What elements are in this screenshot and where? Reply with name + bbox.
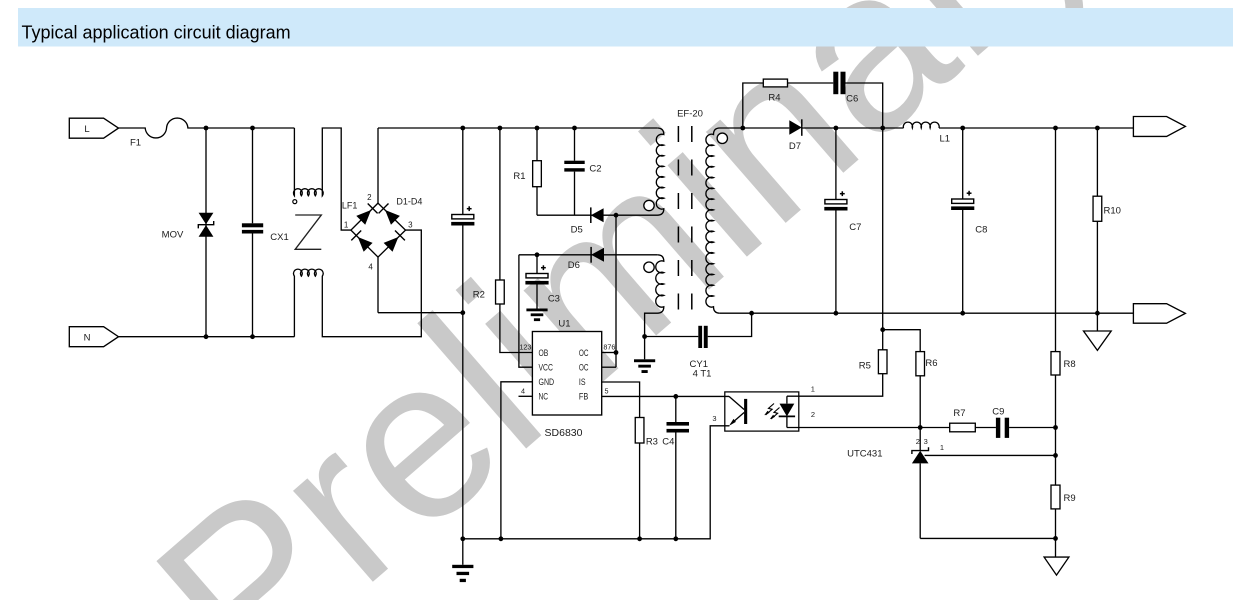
svg-text:MOV: MOV <box>162 229 184 240</box>
svg-text:D1-D4: D1-D4 <box>396 197 422 207</box>
svg-text:CX1: CX1 <box>270 232 288 243</box>
svg-text:L1: L1 <box>940 133 951 144</box>
svg-text:NC: NC <box>539 392 549 402</box>
svg-text:R6: R6 <box>925 358 937 369</box>
svg-text:2: 2 <box>916 437 920 446</box>
svg-text:4: 4 <box>368 263 373 272</box>
svg-text:C2: C2 <box>589 164 601 175</box>
svg-text:1: 1 <box>811 385 815 394</box>
svg-text:3: 3 <box>712 414 716 423</box>
svg-text:3: 3 <box>408 221 413 230</box>
svg-text:R3: R3 <box>646 436 658 447</box>
svg-text:5: 5 <box>605 386 609 395</box>
svg-text:SD6830: SD6830 <box>545 427 583 439</box>
svg-text:R9: R9 <box>1064 493 1076 504</box>
svg-text:R7: R7 <box>953 408 965 419</box>
svg-text:OB: OB <box>539 348 549 358</box>
svg-text:IS: IS <box>579 377 586 387</box>
svg-text:R4: R4 <box>768 93 780 104</box>
svg-text:OC: OC <box>579 363 589 373</box>
svg-text:1: 1 <box>940 443 944 452</box>
svg-text:C8: C8 <box>975 224 987 235</box>
svg-text:FB: FB <box>579 392 588 402</box>
svg-text:Preliminary: Preliminary <box>110 0 1143 600</box>
svg-text:4: 4 <box>521 387 525 396</box>
svg-text:C3: C3 <box>548 294 560 305</box>
svg-text:C7: C7 <box>849 222 861 233</box>
svg-text:D6: D6 <box>568 260 580 271</box>
svg-text:123: 123 <box>519 343 531 352</box>
svg-text:C6: C6 <box>846 94 858 105</box>
svg-text:UTC431: UTC431 <box>847 449 882 460</box>
svg-text:L: L <box>84 124 89 135</box>
svg-text:OC: OC <box>579 348 589 358</box>
svg-text:Typical application circuit di: Typical application circuit diagram <box>22 22 291 42</box>
svg-text:R10: R10 <box>1104 205 1121 216</box>
svg-text:1: 1 <box>344 221 349 230</box>
svg-text:EF-20: EF-20 <box>677 109 703 120</box>
svg-text:C9: C9 <box>992 406 1004 417</box>
svg-text:R5: R5 <box>859 360 871 371</box>
svg-text:R1: R1 <box>513 171 525 182</box>
svg-text:D7: D7 <box>789 141 801 152</box>
svg-text:R8: R8 <box>1064 359 1076 370</box>
svg-text:D5: D5 <box>571 224 583 235</box>
svg-text:N: N <box>84 332 91 343</box>
svg-text:LF1: LF1 <box>342 201 358 211</box>
svg-text:U1: U1 <box>558 319 570 330</box>
svg-text:R2: R2 <box>473 289 485 300</box>
svg-text:2: 2 <box>367 193 372 202</box>
svg-text:4 T1: 4 T1 <box>693 368 712 379</box>
svg-text:F1: F1 <box>130 138 141 149</box>
svg-text:2: 2 <box>811 410 815 419</box>
svg-text:C4: C4 <box>662 436 674 447</box>
svg-text:GND: GND <box>539 377 555 387</box>
svg-text:3: 3 <box>924 437 928 446</box>
svg-text:VCC: VCC <box>539 363 554 373</box>
svg-text:876: 876 <box>603 343 615 352</box>
